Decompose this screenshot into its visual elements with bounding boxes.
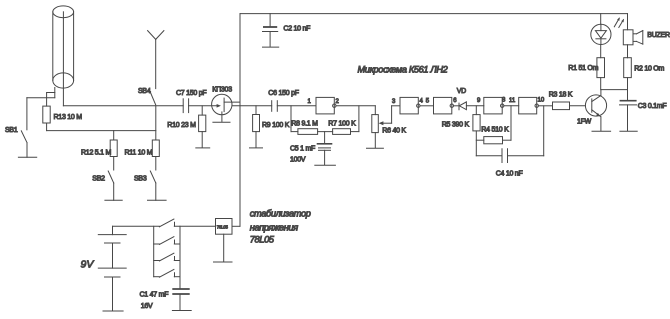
- wire branch to R8: [290, 106, 292, 132]
- svg-text:R5 390 K: R5 390 K: [442, 122, 470, 129]
- wire VT1 to C6: [232, 105, 272, 107]
- battery GB1 9V: [98, 226, 126, 311]
- wire C6 to gate1: [277, 105, 316, 107]
- ground (R10): [196, 147, 210, 149]
- svg-text:SB1: SB1: [5, 127, 18, 134]
- capacitor C7: [183, 99, 188, 113]
- ground (DA1): [214, 261, 233, 263]
- ground (C5): [315, 164, 336, 166]
- resistor R12: [110, 131, 117, 157]
- svg-text:R9 100 K: R9 100 K: [262, 122, 290, 129]
- svg-text:КП303: КП303: [212, 86, 232, 93]
- svg-text:C7 150 pF: C7 150 pF: [176, 90, 206, 97]
- svg-text:11: 11: [509, 98, 516, 104]
- resistor R8: [291, 129, 318, 135]
- switch SB1: [18, 98, 36, 158]
- svg-text:C6 150 pF: C6 150 pF: [268, 90, 298, 97]
- resistor R5: [473, 106, 480, 156]
- resistor R7: [333, 129, 351, 135]
- wire top rail: [240, 13, 628, 15]
- resistor R11: [152, 106, 159, 157]
- capacitor C4: [476, 106, 543, 163]
- svg-text:R2 10 Om: R2 10 Om: [634, 66, 664, 73]
- svg-text:78L05: 78L05: [217, 224, 229, 229]
- LED HL1: [591, 14, 624, 45]
- svg-text:R11 10 M: R11 10 M: [125, 150, 153, 157]
- svg-text:SB3: SB3: [134, 176, 147, 183]
- diode VD: [454, 102, 484, 110]
- svg-text:R7 100 K: R7 100 K: [328, 121, 356, 128]
- svg-text:R13 10 M: R13 10 M: [54, 114, 83, 121]
- svg-text:78L05: 78L05: [250, 235, 275, 245]
- inverter U1.2: [400, 97, 420, 114]
- svg-text:C4 10 nF: C4 10 nF: [496, 171, 523, 178]
- svg-text:R3 18 K: R3 18 K: [549, 92, 573, 99]
- transistor VT1 KP303: [212, 94, 240, 121]
- svg-text:стабилизатор: стабилизатор: [250, 209, 311, 219]
- label stabilizer title: [250, 209, 311, 245]
- wire collector node: [601, 89, 627, 91]
- svg-text:R8 9.1 M: R8 9.1 M: [291, 121, 318, 128]
- switch SB4: [151, 93, 156, 105]
- wire battery to switch: [113, 225, 160, 227]
- svg-text:2: 2: [336, 99, 340, 105]
- svg-text:R1 51 Om: R1 51 Om: [568, 65, 598, 72]
- ground (C2): [263, 46, 279, 48]
- power switch SA1 (4 sections): [154, 219, 216, 288]
- resistor R13: [43, 93, 50, 131]
- switch SB2: [105, 157, 122, 201]
- svg-text:Микросхема К561 ЛН2: Микросхема К561 ЛН2: [358, 65, 448, 75]
- ground (C3): [620, 130, 637, 132]
- wire node B row: [47, 130, 156, 132]
- inverter U1.3: [434, 97, 454, 114]
- wire main input: [63, 105, 183, 107]
- transistor VT2: [585, 90, 606, 131]
- inverter U1.1: [316, 97, 336, 114]
- svg-text:VD: VD: [457, 88, 466, 95]
- svg-text:1FW: 1FW: [577, 119, 592, 126]
- svg-text:8: 8: [502, 98, 506, 104]
- svg-text:R10 23 M: R10 23 M: [167, 122, 196, 129]
- svg-text:5: 5: [426, 99, 430, 105]
- svg-text:C2 10 nF: C2 10 nF: [283, 26, 310, 33]
- resistor R1: [597, 45, 605, 90]
- svg-text:3: 3: [392, 99, 396, 105]
- wire gate1 out to R6: [336, 106, 375, 115]
- svg-text:4: 4: [420, 99, 424, 105]
- wire R7 right up to gate1 output: [351, 106, 359, 132]
- svg-text:100V: 100V: [290, 157, 306, 164]
- wire coil-left to node A: [27, 88, 55, 98]
- resistor R4: [476, 106, 511, 144]
- svg-text:1: 1: [308, 99, 312, 105]
- capacitor C5: [318, 132, 332, 165]
- svg-text:BUZER: BUZER: [647, 32, 670, 39]
- ground (VT1 source): [213, 121, 230, 123]
- wire gate5 out: [538, 105, 552, 107]
- svg-text:напряжения: напряжения: [250, 223, 298, 233]
- regulator DA1 78L05: [216, 219, 241, 262]
- svg-text:R12 5.1 M: R12 5.1 M: [81, 150, 111, 157]
- svg-text:C1 47 mF: C1 47 mF: [140, 292, 169, 299]
- potentiometer R6: [372, 106, 400, 148]
- svg-text:R6 40 K: R6 40 K: [382, 128, 406, 135]
- svg-text:C3 0.1mF: C3 0.1mF: [638, 103, 667, 110]
- svg-text:9V: 9V: [81, 259, 95, 271]
- resistor R2: [624, 58, 632, 101]
- ground (C1): [172, 310, 191, 312]
- inverter U1.4: [484, 97, 504, 114]
- ground (VT2 emitter): [592, 130, 611, 132]
- capacitor C1: [173, 289, 189, 310]
- svg-text:SB4: SB4: [138, 88, 151, 95]
- svg-text:16V: 16V: [141, 303, 153, 310]
- antenna WA1: [148, 31, 164, 89]
- svg-text:SB2: SB2: [92, 176, 105, 183]
- wire power rail vertical: [239, 14, 241, 227]
- ground (R9): [250, 147, 263, 149]
- svg-text:9: 9: [477, 98, 481, 104]
- ground (R6): [367, 147, 384, 149]
- wire gate2 to gate3: [420, 105, 434, 107]
- inverter U1.5: [519, 97, 539, 114]
- wire C7 to VT1 gate: [189, 105, 219, 107]
- svg-text:C5 1 mF: C5 1 mF: [290, 145, 315, 152]
- wire R8 to R7: [318, 131, 333, 133]
- wire gate4 to gate5: [504, 105, 519, 107]
- capacitor C3: [620, 101, 637, 131]
- resistor R3: [553, 102, 586, 110]
- capacitor C2: [263, 14, 278, 47]
- sensor coil L1 (cylinder): [53, 6, 74, 106]
- buzzer BA1: [623, 14, 643, 58]
- svg-text:10: 10: [538, 98, 545, 104]
- resistor R10: [199, 106, 206, 147]
- svg-text:6: 6: [453, 98, 457, 104]
- switch SB3: [148, 157, 167, 201]
- resistor R9: [253, 106, 260, 147]
- capacitor C6: [272, 101, 278, 112]
- svg-text:R4 510 K: R4 510 K: [481, 127, 509, 134]
